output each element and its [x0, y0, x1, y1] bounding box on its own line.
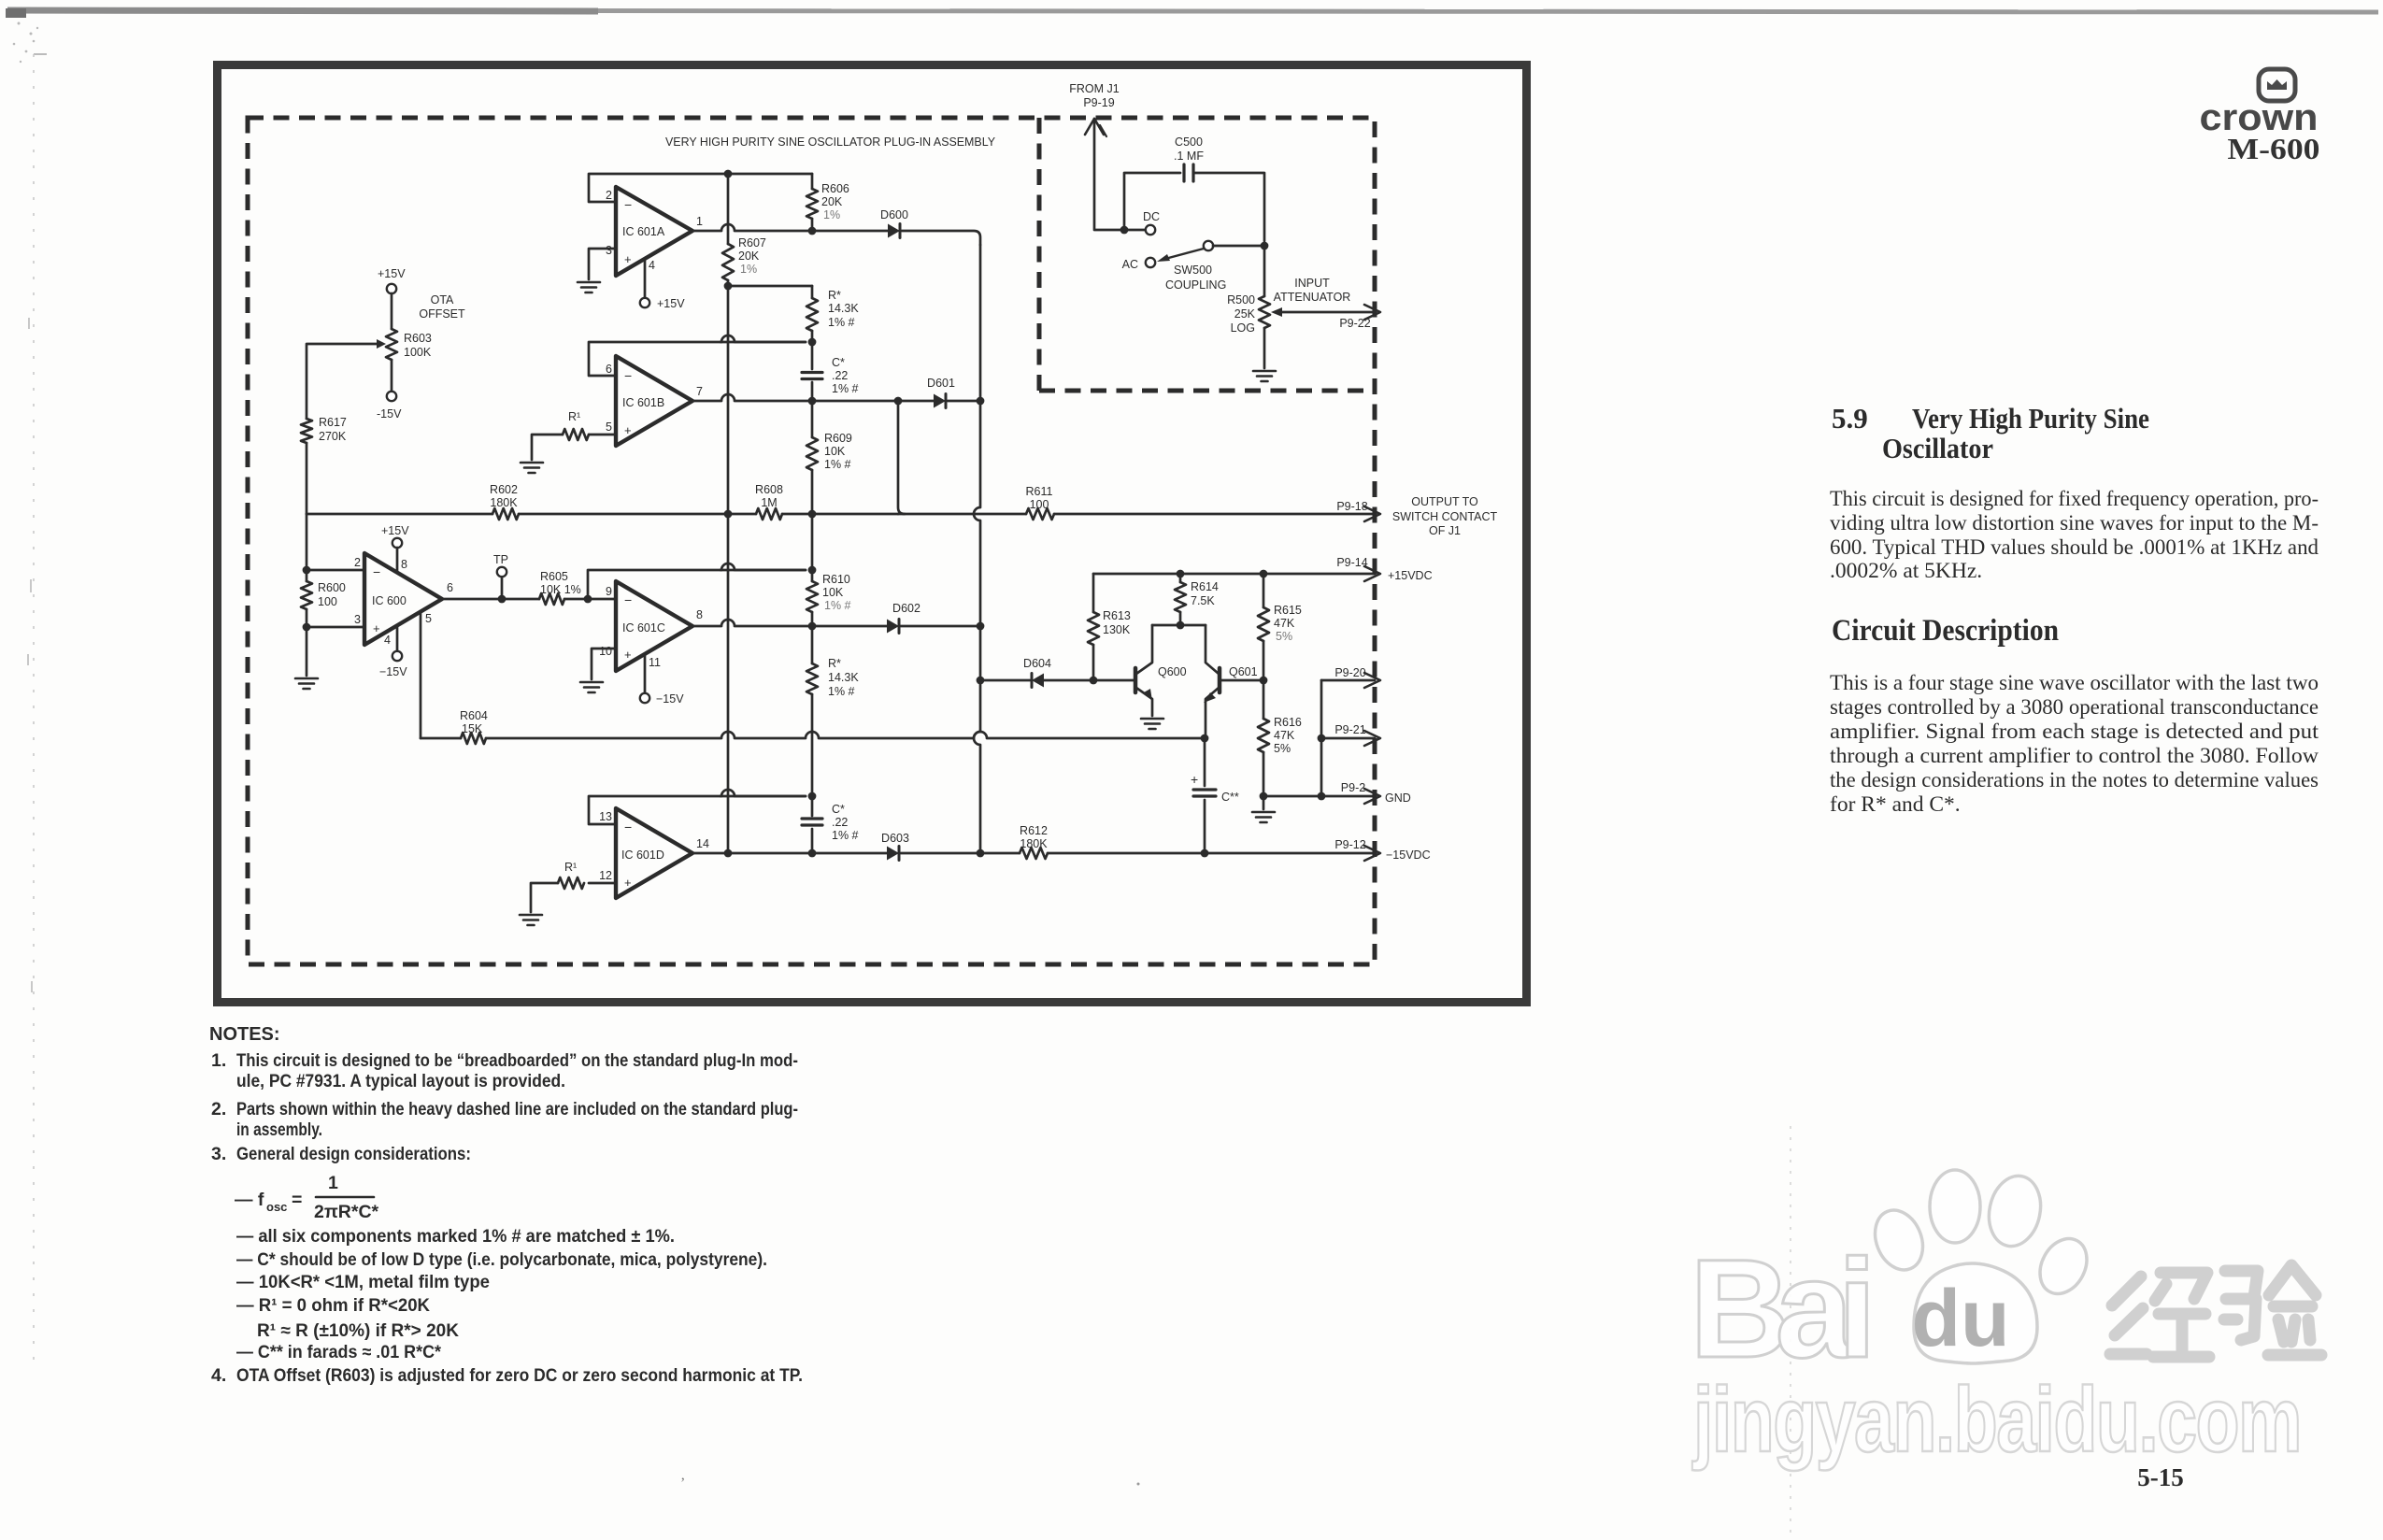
wire pin11 -15V — [644, 655, 647, 692]
svg-text:for R* and C*.: for R* and C*. — [1830, 792, 1961, 817]
svg-text:10K 1%: 10K 1% — [540, 583, 581, 596]
svg-text:1% #: 1% # — [828, 316, 855, 329]
svg-text:M-600: M-600 — [2228, 132, 2320, 165]
capacitor C500 .1 MF — [1182, 164, 1185, 181]
junction R616 bottom — [1260, 792, 1268, 801]
svg-text:R616: R616 — [1274, 716, 1302, 729]
svg-text:R¹ ≈ R (±10%) if R*> 20K: R¹ ≈ R (±10%) if R*> 20K — [257, 1320, 459, 1341]
wire from J1 — [1094, 119, 1146, 230]
svg-text:OTA: OTA — [431, 293, 454, 307]
svg-text:This circuit is designed to be: This circuit is designed to be “breadboa… — [236, 1050, 798, 1071]
ground R1 D — [520, 914, 542, 917]
svg-text:2: 2 — [606, 189, 612, 202]
junction feedback/bus2 D — [808, 792, 817, 801]
svg-text:12: 12 — [599, 869, 612, 882]
svg-text:4: 4 — [384, 634, 391, 647]
connector P9-2 — [1364, 789, 1380, 804]
op-amp IC601B — [616, 356, 692, 446]
svg-text:IC 601D: IC 601D — [621, 848, 664, 862]
svg-text:−15VDC: −15VDC — [1386, 848, 1431, 862]
wire IC601C output row — [692, 620, 887, 626]
svg-text:ule, PC #7931. A typical layou: ule, PC #7931. A typical layout is provi… — [236, 1071, 565, 1091]
svg-text:−15V: −15V — [379, 665, 407, 678]
resistor R* (stage B) 14.3K — [811, 286, 814, 298]
svg-text:180K: 180K — [490, 496, 518, 509]
resistor R614 7.5K — [1179, 574, 1182, 582]
svg-text:5.9Very High Purity Sine: 5.9Very High Purity Sine — [1832, 402, 2149, 435]
svg-text:6: 6 — [606, 363, 612, 376]
svg-text:2: 2 — [354, 556, 361, 569]
junction feedback/bus2 — [808, 566, 817, 575]
svg-text:R¹: R¹ — [568, 410, 580, 423]
junction bus1 top — [724, 170, 733, 178]
svg-text:20K: 20K — [738, 250, 760, 263]
svg-text:5: 5 — [606, 421, 612, 434]
svg-text:Circuit Description: Circuit Description — [1832, 614, 2059, 648]
svg-text:−: − — [624, 820, 632, 834]
junction R605/feedback — [584, 595, 592, 604]
wire IC601B output row — [692, 394, 934, 401]
svg-text:P9-22: P9-22 — [1339, 317, 1370, 330]
svg-text:TP: TP — [493, 553, 508, 566]
svg-text:10K: 10K — [824, 445, 846, 458]
svg-text:Oscillator: Oscillator — [1882, 432, 1993, 464]
wire R500 to ground — [1263, 328, 1266, 368]
junction bus1/row550 — [724, 510, 733, 519]
ground below R616 — [1263, 796, 1265, 809]
svg-text:1% #: 1% # — [828, 685, 855, 698]
wire D602 to bus3 — [901, 625, 980, 628]
ground IC601C — [580, 681, 603, 684]
svg-text:IC 601B: IC 601B — [622, 396, 664, 409]
svg-text:R600: R600 — [318, 581, 346, 594]
svg-text:R602: R602 — [490, 483, 518, 496]
junction R614 bottom — [1177, 621, 1185, 630]
junction bus2/row550 — [808, 510, 817, 519]
svg-text:1% #: 1% # — [832, 382, 859, 395]
svg-text:R*: R* — [828, 657, 841, 670]
svg-text:47K: 47K — [1274, 729, 1295, 742]
svg-text:P9-14: P9-14 — [1336, 556, 1367, 569]
wire R611 to P9-18 — [1054, 513, 1375, 516]
svg-text:D600: D600 — [880, 208, 908, 221]
svg-text:100: 100 — [1030, 498, 1049, 511]
svg-text:— C** in farads ≈ .01 R*C*: — C** in farads ≈ .01 R*C* — [236, 1342, 441, 1362]
op-amp IC601C — [616, 581, 692, 671]
svg-text:D603: D603 — [881, 832, 909, 845]
wire node to R* — [728, 285, 812, 288]
svg-text:IC 601A: IC 601A — [622, 225, 665, 238]
svg-text:+: + — [624, 876, 632, 890]
svg-text:100: 100 — [318, 595, 337, 608]
svg-text:+: + — [624, 648, 632, 662]
svg-text:25K: 25K — [1234, 307, 1256, 321]
op-amp IC600 — [364, 553, 442, 645]
svg-text:C500: C500 — [1175, 135, 1203, 149]
svg-text:5-15: 5-15 — [2137, 1463, 2184, 1491]
svg-text:1% #: 1% # — [824, 458, 851, 471]
ground R1 — [521, 462, 543, 464]
svg-text:the design considerations in t: the design considerations in the notes t… — [1830, 768, 2319, 792]
svg-text:100K: 100K — [404, 346, 432, 359]
svg-text:−15V: −15V — [656, 692, 684, 706]
connector P9-12 — [1364, 846, 1380, 861]
svg-text:1: 1 — [328, 1173, 338, 1193]
svg-text:through a current amplifier to: through a current amplifier to control t… — [1830, 744, 2319, 768]
junction D604/bus3 — [977, 677, 985, 685]
svg-text:OTA Offset (R603) is adjusted: OTA Offset (R603) is adjusted for zero D… — [236, 1365, 803, 1386]
svg-text:VERY HIGH PURITY SINE OSCILLAT: VERY HIGH PURITY SINE OSCILLATOR PLUG-IN… — [665, 135, 995, 149]
wire wiper to P9-22 — [1280, 311, 1375, 314]
svg-text:2.: 2. — [211, 1099, 226, 1119]
svg-text:— R¹ = 0 ohm if R*<20K: — R¹ = 0 ohm if R*<20K — [236, 1295, 430, 1316]
junction Q601 base node — [1260, 677, 1268, 685]
junction bus3 bottom — [977, 849, 985, 858]
svg-text:This is a four stage sine wave: This is a four stage sine wave oscillato… — [1830, 671, 2319, 695]
connector P9-18 — [1364, 506, 1380, 521]
svg-text:3.: 3. — [211, 1144, 226, 1164]
transistor Q600 — [1134, 668, 1138, 692]
diode D601 — [934, 394, 946, 408]
svg-text:4.: 4. — [211, 1365, 226, 1386]
wire rail to ground — [306, 609, 308, 676]
svg-text:AC: AC — [1122, 258, 1138, 271]
svg-text:14: 14 — [696, 837, 709, 850]
ground R500 — [1253, 370, 1276, 373]
svg-text:in assembly.: in assembly. — [236, 1119, 322, 1140]
svg-text:3: 3 — [354, 613, 361, 626]
svg-text:1%: 1% — [740, 263, 757, 276]
junction D601/bus3 — [977, 397, 985, 406]
svg-text:C*: C* — [832, 803, 845, 816]
wire IC601B feedback loop — [589, 342, 806, 376]
svg-text:R612: R612 — [1020, 824, 1048, 837]
wire bus1 — [727, 286, 730, 853]
junction bus2 bottom — [808, 849, 817, 858]
svg-text:jingyan.baidu.com: jingyan.baidu.com — [1691, 1368, 2301, 1471]
svg-text:+: + — [624, 252, 632, 266]
svg-text:osc: osc — [266, 1200, 287, 1214]
resistor R607 — [727, 174, 730, 244]
svg-text:R608: R608 — [755, 483, 783, 496]
svg-text:15K: 15K — [462, 722, 483, 735]
resistor R606 — [811, 174, 814, 189]
svg-text:5%: 5% — [1276, 630, 1292, 643]
junction Q601 emitter node — [1201, 734, 1209, 743]
svg-text:— f: — f — [235, 1190, 264, 1210]
svg-text:.22: .22 — [832, 816, 848, 829]
svg-text:+15VDC: +15VDC — [1388, 569, 1433, 582]
svg-text:DC: DC — [1143, 210, 1160, 223]
svg-text:1.: 1. — [211, 1050, 226, 1071]
svg-text:R¹: R¹ — [564, 861, 577, 874]
diode D603 — [887, 847, 899, 861]
svg-text:OUTPUT TO: OUTPUT TO — [1411, 495, 1478, 508]
potentiometer R603 100K — [386, 329, 397, 360]
svg-text:.1 MF: .1 MF — [1174, 150, 1204, 163]
svg-text:−: − — [624, 368, 632, 383]
svg-text:10: 10 — [599, 645, 612, 658]
wire IC601D output row — [692, 852, 887, 855]
connector P9-14 — [1364, 566, 1380, 581]
svg-text:180K: 180K — [1020, 837, 1048, 850]
wire R605 to pin9 — [564, 598, 616, 601]
svg-text:R*: R* — [828, 289, 841, 302]
resistor R612 180K — [980, 852, 1020, 855]
svg-text:9: 9 — [606, 585, 612, 598]
svg-text:GND: GND — [1385, 791, 1411, 805]
svg-text:P9-2: P9-2 — [1341, 781, 1365, 794]
svg-text:IC 601C: IC 601C — [622, 621, 665, 635]
svg-text:COUPLING: COUPLING — [1165, 278, 1226, 292]
junction D601 takeoff — [894, 397, 903, 406]
svg-text:270K: 270K — [319, 430, 347, 443]
junction bus1 bottom — [724, 849, 733, 858]
svg-text:1% #: 1% # — [824, 599, 851, 612]
svg-text:R607: R607 — [738, 236, 766, 250]
ground Q600 emitter — [1141, 718, 1163, 720]
svg-text:-15V: -15V — [377, 407, 402, 421]
svg-text:600. Typical THD values should: 600. Typical THD values should be .0001%… — [1830, 535, 2319, 560]
svg-text:viding ultra low distortion si: viding ultra low distortion sine waves f… — [1830, 511, 2319, 535]
junction P9-2 — [1318, 792, 1326, 801]
junction pin3 rail — [303, 623, 311, 632]
svg-text:+: + — [624, 423, 632, 437]
svg-text:— C* should be of low D type (: — C* should be of low D type (i.e. polyc… — [236, 1249, 767, 1270]
svg-text:FROM J1: FROM J1 — [1069, 82, 1120, 95]
svg-text:R610: R610 — [822, 573, 850, 586]
resistor R617 270K — [301, 419, 312, 443]
svg-text:P9-12: P9-12 — [1334, 838, 1365, 851]
svg-text:Q600: Q600 — [1158, 665, 1187, 678]
svg-text:5%: 5% — [1274, 742, 1291, 755]
resistor R615 47K 5% — [1263, 574, 1265, 607]
wire D600 to bus3 — [902, 231, 980, 245]
junction P9-21 — [1318, 734, 1326, 743]
svg-text:C*: C* — [832, 356, 845, 369]
wire to P9-12 — [1205, 852, 1375, 855]
svg-text:−: − — [624, 197, 632, 212]
junction R613 bottom — [1090, 677, 1098, 685]
potentiometer R500 25K LOG — [1263, 246, 1266, 296]
wire bus3 detector rail — [974, 245, 980, 853]
svg-text:+15V: +15V — [381, 524, 409, 537]
diode D600 — [888, 224, 900, 238]
connector P9-21 — [1321, 737, 1375, 740]
junction pin2 rail — [303, 566, 311, 575]
wire IC601A output row — [692, 224, 888, 231]
svg-text:R605: R605 — [540, 570, 568, 583]
svg-text:+: + — [1191, 772, 1198, 787]
svg-text:130K: 130K — [1103, 623, 1131, 636]
wire IC601A pin3 to ground — [589, 249, 616, 279]
diode D604 — [980, 679, 1030, 682]
svg-text:1%: 1% — [823, 208, 840, 221]
svg-text:LOG: LOG — [1231, 321, 1255, 335]
svg-text:20K: 20K — [821, 195, 843, 208]
svg-text:Bai: Bai — [1690, 1230, 1876, 1387]
crown logo — [2259, 69, 2295, 101]
wire Q601 base to R615/R616 — [1221, 679, 1263, 682]
wire C500 branch — [1124, 173, 1180, 230]
wire D604 to Q600 base — [1044, 679, 1134, 682]
svg-text:1M: 1M — [761, 496, 777, 509]
svg-text:General design considerations:: General design considerations: — [236, 1144, 471, 1164]
wire D601 to bus3 — [948, 400, 980, 403]
svg-text:+15V: +15V — [657, 297, 685, 310]
wire ground tie vertical — [1320, 680, 1323, 796]
resistor R610 10K — [811, 570, 814, 581]
capacitor C* (stage B) — [811, 342, 814, 369]
svg-text:R500: R500 — [1227, 293, 1255, 307]
svg-text:— all six components marked 1%: — all six components marked 1% # are mat… — [236, 1226, 675, 1247]
connector P9-20 — [1321, 679, 1375, 682]
terminal +15V IC601A — [640, 298, 649, 307]
transistor Q601 — [1218, 668, 1222, 692]
svg-text:P9-21: P9-21 — [1334, 723, 1365, 736]
svg-text:C**: C** — [1221, 791, 1239, 804]
svg-text:R613: R613 — [1103, 609, 1131, 622]
junction C500 branch — [1120, 226, 1129, 235]
svg-text:47K: 47K — [1274, 617, 1295, 630]
wire IC600 output to TP — [442, 598, 539, 601]
svg-text:ATTENUATOR: ATTENUATOR — [1274, 291, 1351, 304]
svg-text:R614: R614 — [1191, 580, 1219, 593]
wire IC601C feedback — [588, 570, 806, 599]
svg-text:IC 600: IC 600 — [372, 594, 407, 607]
svg-text:SWITCH CONTACT: SWITCH CONTACT — [1392, 510, 1498, 523]
ground IC600 — [295, 677, 318, 680]
svg-text:’: ’ — [680, 1476, 685, 1491]
resistor R613 130K — [1092, 574, 1095, 612]
svg-text:D604: D604 — [1023, 657, 1051, 670]
svg-text:R606: R606 — [821, 182, 849, 195]
terminal -15V R603 — [387, 392, 396, 401]
svg-text:−: − — [624, 592, 632, 607]
op-amp IC601A — [616, 187, 692, 276]
resistor R611 100 — [1026, 508, 1054, 520]
svg-text:This circuit is designed for f: This circuit is designed for fixed frequ… — [1830, 487, 2319, 511]
svg-text:7.5K: 7.5K — [1191, 594, 1215, 607]
svg-text:1% #: 1% # — [832, 829, 859, 842]
svg-text:11: 11 — [649, 656, 661, 669]
svg-text:R609: R609 — [824, 432, 852, 445]
svg-text:8: 8 — [401, 558, 407, 571]
junction R610/output — [808, 622, 817, 631]
capacitor C* (stage D) — [802, 817, 822, 820]
wire row to R611 — [898, 513, 1026, 516]
wire IC601A feedback loop — [589, 174, 812, 202]
svg-text:.0002% at 5KHz.: .0002% at 5KHz. — [1830, 559, 1982, 583]
wire pin 4 +15V — [644, 261, 647, 297]
svg-text:7: 7 — [696, 385, 703, 398]
svg-text:Parts shown within the heavy d: Parts shown within the heavy dashed line… — [236, 1099, 798, 1119]
svg-text:.22: .22 — [832, 369, 848, 382]
svg-text:OF J1: OF J1 — [1429, 524, 1461, 537]
wire IC600 inputs — [307, 569, 364, 572]
wire IC601D feedback loop — [589, 796, 806, 824]
svg-text:P9-20: P9-20 — [1334, 666, 1365, 679]
svg-text:−: − — [373, 564, 380, 579]
svg-text:Q601: Q601 — [1229, 665, 1258, 678]
wire IC601C pin10 ground — [592, 649, 616, 679]
svg-text:+: + — [373, 621, 380, 635]
junction R* bottom — [808, 338, 817, 347]
wire oscillator feedback row — [307, 513, 492, 516]
resistor R608 1M — [756, 508, 782, 520]
wire D603 to bus3 — [901, 852, 980, 855]
resistor R* (stage D) 14.3K — [811, 626, 814, 663]
svg-text:D601: D601 — [927, 377, 955, 390]
svg-text:10K: 10K — [822, 586, 844, 599]
svg-text:6: 6 — [447, 581, 453, 594]
junction D602/bus3 — [977, 622, 985, 631]
svg-text:— 10K<R* <1M, metal film type: — 10K<R* <1M, metal film type — [236, 1272, 490, 1292]
capacitor C** — [1204, 738, 1206, 786]
wire collector tie — [1152, 624, 1206, 627]
svg-text:14.3K: 14.3K — [828, 302, 859, 315]
svg-text:8: 8 — [696, 608, 703, 621]
wire R604 tap — [420, 612, 422, 738]
svg-text:=: = — [292, 1190, 302, 1210]
svg-text:D602: D602 — [892, 602, 920, 615]
svg-text:P9-18: P9-18 — [1336, 500, 1367, 513]
wire P9-2 row — [1263, 795, 1375, 798]
svg-text:OFFSET: OFFSET — [419, 307, 465, 321]
svg-text:du: du — [1911, 1274, 2009, 1363]
resistor R600 100 — [306, 514, 308, 581]
diode D602 — [887, 620, 899, 634]
resistor R609 — [811, 401, 814, 437]
svg-text:NOTES:: NOTES: — [209, 1024, 280, 1045]
connector P9-22 — [1364, 305, 1380, 320]
junction R615 top — [1260, 570, 1268, 578]
junction R606/output — [808, 227, 817, 235]
svg-text:R615: R615 — [1274, 604, 1302, 617]
svg-text:13: 13 — [599, 810, 612, 823]
svg-text:2πR*C*: 2πR*C* — [314, 1202, 379, 1222]
terminal -15V IC600 — [396, 625, 399, 651]
svg-text:stages controlled by a 3080 op: stages controlled by a 3080 operational … — [1830, 695, 2319, 720]
op-amp IC601D — [616, 808, 692, 898]
plug-in assembly dashed boundary — [248, 118, 1375, 964]
svg-text:amplifier. Signal from each st: amplifier. Signal from each stage is det… — [1830, 720, 2319, 744]
svg-text:1: 1 — [696, 215, 703, 228]
svg-text:R611: R611 — [1026, 485, 1053, 498]
svg-text:14.3K: 14.3K — [828, 671, 859, 684]
svg-text:+15V: +15V — [378, 267, 406, 280]
wire +15VDC rail — [1093, 573, 1375, 576]
svg-text:R604: R604 — [460, 709, 488, 722]
resistor R605 10K 1% — [539, 593, 564, 605]
svg-text:SW500: SW500 — [1174, 264, 1212, 277]
resistor R616 47K 5% — [1263, 680, 1265, 719]
svg-text:INPUT: INPUT — [1294, 277, 1330, 290]
svg-text:P9-19: P9-19 — [1083, 96, 1114, 109]
junction C** bottom — [1201, 849, 1209, 858]
svg-text:5: 5 — [425, 612, 432, 625]
connector P9-19 arrow — [1085, 119, 1104, 135]
ground IC601A pin3 — [578, 281, 600, 284]
svg-text:R603: R603 — [404, 332, 432, 345]
test point TP — [498, 595, 507, 604]
resistor R604 15K — [421, 737, 461, 740]
svg-text:3: 3 — [606, 244, 612, 257]
wire R603 wiper to left rail — [307, 344, 377, 419]
watermark — [1690, 1170, 2321, 1471]
svg-text:R617: R617 — [319, 416, 347, 429]
wire D601 node down to row — [898, 401, 905, 514]
